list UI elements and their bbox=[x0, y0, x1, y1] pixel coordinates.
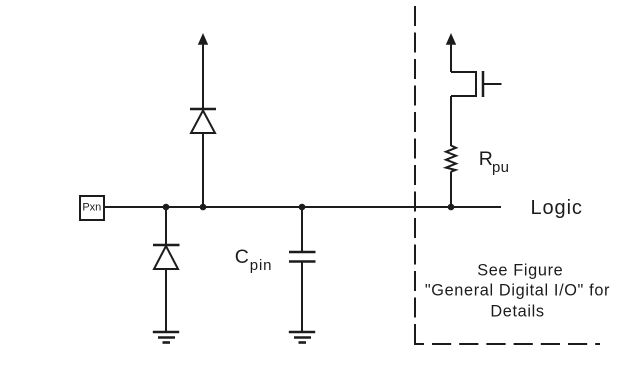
svg-text:pin: pin bbox=[250, 257, 272, 274]
svg-text:R: R bbox=[479, 148, 493, 170]
svg-text:Logic: Logic bbox=[531, 197, 583, 219]
svg-text:Pxn: Pxn bbox=[82, 202, 101, 214]
svg-text:"General Digital I/O" for: "General Digital I/O" for bbox=[425, 281, 610, 299]
svg-text:C: C bbox=[235, 246, 249, 268]
svg-text:See Figure: See Figure bbox=[477, 261, 563, 279]
svg-text:pu: pu bbox=[492, 159, 509, 176]
svg-text:Details: Details bbox=[490, 302, 544, 320]
